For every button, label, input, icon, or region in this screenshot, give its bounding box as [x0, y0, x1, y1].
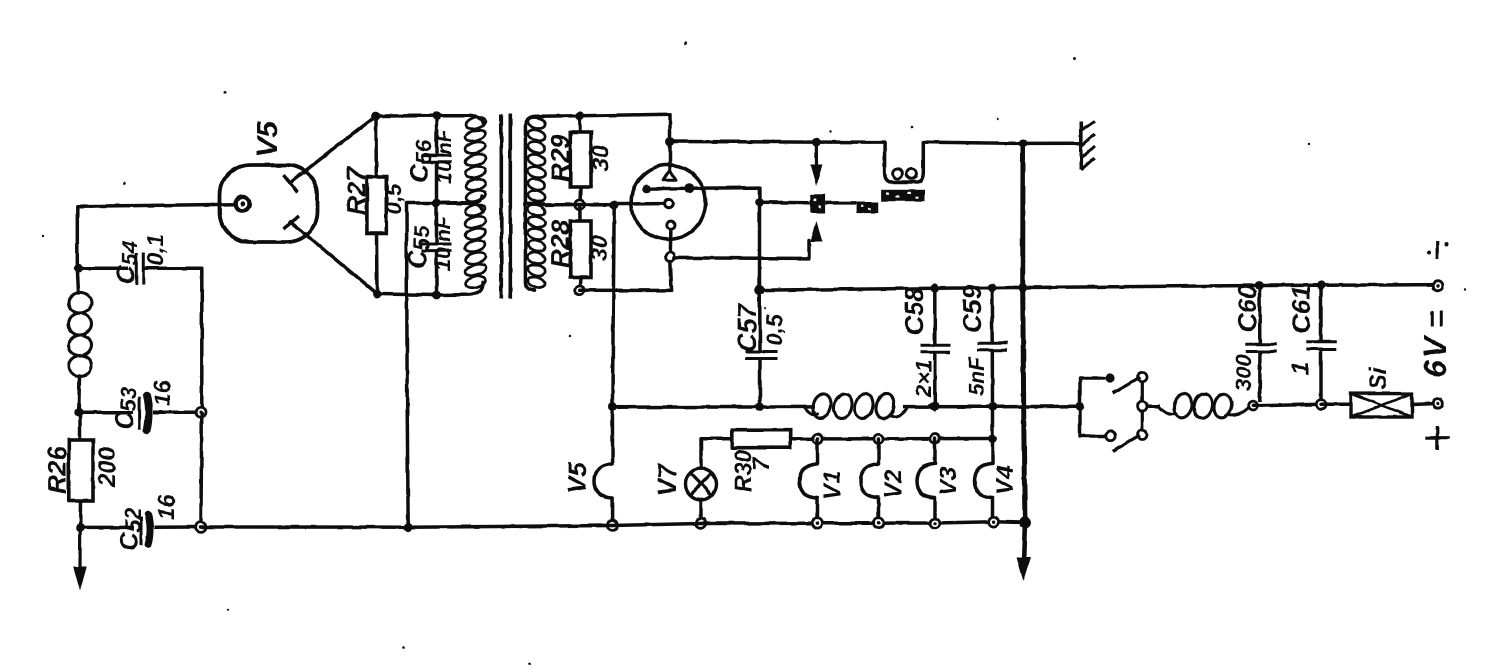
- resistor R28: [570, 205, 591, 290]
- transformer core: [501, 114, 510, 299]
- node junction C60 top: [1255, 281, 1264, 290]
- tube V3 heater: [917, 439, 935, 520]
- vibrator stack small block: [856, 202, 879, 213]
- wire heater top rail: [818, 437, 993, 441]
- svg-text:10 nF: 10 nF: [433, 128, 456, 184]
- capacitor C53 electrolytic plates: [140, 396, 149, 431]
- tube V5 anode electrode bottom: [283, 216, 303, 232]
- svg-text:V5: V5: [252, 121, 284, 157]
- wire reed continuation to stack: [825, 201, 856, 205]
- node junction socket top feed: [666, 137, 675, 146]
- fuse Si body: [1351, 394, 1412, 417]
- node junction top-left: [372, 112, 381, 121]
- wire anode top diagonal: [302, 116, 376, 173]
- transformer primary winding top half: [438, 115, 487, 203]
- node junction C61 bottom: [1316, 400, 1325, 409]
- node junction C54 tap: [74, 264, 83, 273]
- label R30 value 7: [748, 456, 775, 471]
- label minus sign: [1427, 242, 1449, 259]
- label C59 value 5nF: [964, 356, 989, 396]
- wire C54 left lead: [79, 266, 128, 270]
- wire top rail vibrator to bus: [923, 142, 1023, 143]
- label DC equals sign: [1432, 311, 1441, 327]
- transformer secondary winding top half: [525, 116, 546, 204]
- label V5 rectifier tube: [252, 121, 284, 157]
- svg-text:16: 16: [149, 380, 175, 406]
- node junction C59 top: [987, 283, 996, 292]
- wire heater feed vertical drop: [612, 205, 614, 407]
- HT bus thick vertical: [1023, 143, 1025, 522]
- wire secondary mid tap: [525, 202, 545, 206]
- label R29 value 30: [587, 145, 613, 171]
- wire socket bottom terminal to secondary rail: [580, 261, 672, 290]
- wire C53 right lead: [153, 410, 201, 414]
- node junction V3 top: [930, 434, 939, 443]
- node junction C59 bottom / V4 feed: [988, 402, 997, 411]
- tube V5 anode electrode top: [284, 173, 303, 192]
- node junction C58 top: [930, 284, 939, 293]
- svg-text:6V: 6V: [1417, 334, 1453, 378]
- label R28 value 30: [586, 235, 612, 261]
- wire socket pin5 down lead: [669, 229, 673, 252]
- node junction vibrator drive tap: [812, 138, 821, 147]
- svg-text:R29: R29: [545, 134, 575, 182]
- label C57 value 0,5: [761, 313, 787, 346]
- label V3: [935, 466, 962, 496]
- vibrator socket outline: [631, 165, 705, 239]
- node junction choke/C60: [1248, 401, 1257, 410]
- label C53 value 16: [149, 380, 175, 406]
- switch S1 blade upper: [1113, 378, 1141, 394]
- label R29: [545, 134, 575, 182]
- wire top junction to C56 lead: [376, 114, 437, 118]
- wire heater feed rail right: [993, 405, 1081, 409]
- label C57: [732, 303, 762, 352]
- switch S1 pole mid: [1138, 402, 1147, 411]
- wire top rail socket to vibrator: [670, 140, 816, 144]
- node junction C52 tap: [76, 523, 85, 532]
- node junction V4 ground: [989, 517, 999, 527]
- wire grid lead from V5 to left rail: [77, 204, 236, 268]
- svg-text:V1: V1: [819, 471, 846, 500]
- wire bottom rail to fuse: [1321, 402, 1351, 406]
- label C52 value 16: [153, 494, 179, 520]
- wire reed to contact: [760, 201, 810, 205]
- vibrator fixed contact block: [810, 194, 825, 213]
- node junction C55 bottom: [432, 291, 441, 300]
- node junction reed tap: [755, 198, 764, 207]
- svg-text:C58: C58: [899, 287, 929, 335]
- node junction bottom-left: [373, 290, 382, 299]
- svg-text:V7: V7: [652, 463, 682, 496]
- wire top rail to chassis ground: [1023, 141, 1081, 145]
- label C59: [957, 285, 987, 333]
- label plus sign: [1426, 426, 1450, 450]
- svg-text:C60: C60: [1232, 284, 1262, 332]
- socket pin 4 centre: [664, 199, 673, 208]
- inductor L2 heater choke: [804, 392, 908, 420]
- svg-text:R28: R28: [545, 220, 575, 268]
- node junction secondary bottom: [575, 285, 585, 295]
- vibrator drive coil: [885, 142, 924, 182]
- wire switch output: [1147, 404, 1160, 408]
- capacitor C58: [920, 288, 950, 402]
- svg-text:200: 200: [94, 446, 121, 488]
- label C60 value 300: [1231, 354, 1256, 391]
- tube V4 heater: [975, 439, 993, 519]
- switch S1 upper fixed contact: [1105, 373, 1114, 382]
- label V2: [880, 469, 907, 499]
- tube V5 envelope: [220, 165, 318, 242]
- label C55: [402, 225, 434, 269]
- wire secondary mid tap to vibrator socket: [545, 204, 664, 205]
- wire C54 right lead to right rail: [145, 268, 202, 412]
- vibrator lower contact arrow up: [810, 222, 822, 242]
- node junction V5 heater ground: [608, 521, 618, 531]
- switch S1 blade lower: [1113, 436, 1141, 452]
- label C58 value 2x1: [911, 360, 936, 398]
- svg-text:1: 1: [1287, 362, 1314, 375]
- vibrator moving contact arrow down: [811, 142, 823, 185]
- node junction top rail / HT bus: [1019, 139, 1028, 148]
- label R27 value 0,5: [381, 183, 406, 214]
- node junction ground-line left end: [196, 522, 206, 532]
- label Si: [1365, 366, 1392, 390]
- socket pin 2 contact: [642, 185, 651, 194]
- label C61: [1286, 285, 1316, 333]
- terminal battery minus: [1433, 281, 1443, 291]
- arrow to battery minus (chassis) below C52: [73, 528, 87, 592]
- node junction V3 ground: [930, 518, 940, 528]
- wire C52 left lead: [80, 526, 134, 530]
- node junction B-rail / C57: [755, 285, 765, 295]
- node junction secondary top: [575, 111, 584, 120]
- node junction V1 top: [813, 434, 822, 443]
- label V1: [819, 471, 846, 500]
- switch S1 lower fixed contact: [1106, 431, 1115, 440]
- terminal battery plus: [1433, 399, 1443, 409]
- node junction V2 top: [874, 434, 883, 443]
- label V7: [652, 463, 682, 496]
- tube V5 heater: [595, 407, 613, 520]
- transformer secondary winding bottom half: [525, 203, 546, 291]
- wire C52 right lead: [155, 525, 201, 529]
- socket pin 3 contact: [684, 183, 694, 193]
- svg-text:0,5: 0,5: [761, 313, 787, 346]
- capacitor C52 electrolytic plates: [141, 515, 150, 546]
- wire secondary top to socket: [536, 114, 670, 141]
- svg-text:10 nF: 10 nF: [432, 215, 455, 271]
- switch S1 pole post: [1141, 374, 1144, 437]
- svg-text:5nF: 5nF: [964, 356, 989, 396]
- tube V2 heater: [861, 439, 879, 520]
- wire B-line long rail: [760, 285, 1438, 291]
- node junction secondary mid: [575, 200, 585, 210]
- tube V5 grid pin terminal: [236, 197, 250, 211]
- wire fuse to plus terminal: [1412, 402, 1433, 406]
- label R26: [42, 446, 72, 494]
- svg-text:C59: C59: [957, 285, 987, 333]
- label R27: [341, 166, 371, 215]
- label V4: [992, 466, 1019, 495]
- svg-text:R26: R26: [42, 446, 72, 494]
- svg-text:V5: V5: [562, 462, 592, 494]
- resistor R29: [570, 116, 591, 205]
- svg-text:7: 7: [748, 456, 775, 471]
- node junction primary CT ground: [404, 523, 413, 532]
- svg-text:V2: V2: [880, 469, 907, 499]
- node junction C56 top: [432, 111, 441, 120]
- capacitor C57: [745, 290, 777, 407]
- inductor L3 output choke: [1158, 392, 1249, 420]
- node junction bus/B-line: [1018, 283, 1027, 292]
- vibrator reed arm from socket jumper: [689, 188, 759, 203]
- node junction C55/C56 mid: [432, 199, 441, 208]
- label 6V: [1417, 334, 1453, 378]
- label V5 heater: [562, 462, 592, 494]
- inductor L1 antenna coil: [67, 268, 93, 412]
- arrow HT bus to battery minus: [1017, 523, 1031, 582]
- label R28: [545, 220, 575, 268]
- svg-text:Si: Si: [1365, 366, 1392, 390]
- socket pin 1 triangle: [664, 171, 676, 181]
- label C56 value 10nF: [433, 128, 456, 184]
- switch S1 frame upper: [1080, 378, 1104, 406]
- wire vibrator reed lower contact arm: [674, 232, 816, 258]
- label R26 value 200: [94, 446, 121, 488]
- svg-text:30: 30: [587, 145, 613, 171]
- switch S1 pole top: [1138, 372, 1147, 381]
- socket pin 5 bottom: [667, 221, 675, 229]
- node junction V1 ground: [813, 518, 823, 528]
- node junction V2 ground: [874, 518, 884, 528]
- node junction bus/ground-line: [1019, 517, 1031, 529]
- node junction heater feed tap: [610, 200, 619, 209]
- label C54: [110, 241, 142, 284]
- svg-text:C61: C61: [1286, 285, 1316, 333]
- svg-text:C57: C57: [732, 303, 762, 352]
- wire socket top pin lead: [668, 142, 672, 172]
- node junction right-rail C53: [196, 407, 206, 417]
- svg-text:2×1: 2×1: [911, 360, 936, 398]
- wire heater feed rail mid: [903, 405, 993, 409]
- svg-text:300: 300: [1231, 354, 1256, 391]
- node junction C53 tap: [74, 408, 83, 417]
- svg-text:30: 30: [586, 235, 612, 261]
- label R30: [730, 450, 756, 492]
- svg-text:V4: V4: [992, 466, 1019, 495]
- label C52: [114, 507, 146, 551]
- node junction V7 ground: [696, 519, 706, 529]
- svg-text:16: 16: [153, 494, 179, 520]
- wire heater feed rail left: [612, 405, 815, 409]
- socket jumper bar pins 2-3: [647, 187, 690, 191]
- node terminal below socket: [666, 252, 675, 261]
- label C55 value 10nF: [432, 215, 455, 271]
- capacitor C56: [422, 116, 452, 203]
- wire mid tap to primary: [437, 201, 467, 205]
- node junction C58 bottom: [925, 401, 939, 413]
- label C60: [1232, 284, 1262, 332]
- label C54 value 0,1: [142, 234, 168, 266]
- svg-text:0,1: 0,1: [142, 234, 168, 266]
- tube V1 heater: [800, 439, 818, 520]
- capacitor C61: [1306, 285, 1336, 404]
- svg-text:0,5: 0,5: [381, 183, 406, 214]
- wire V4 feed drop: [991, 407, 995, 439]
- capacitor C55: [422, 203, 452, 295]
- svg-text:R27: R27: [341, 166, 371, 215]
- node junction C61 top: [1317, 281, 1326, 290]
- capacitor C59: [978, 288, 1008, 407]
- resistor R26: [69, 412, 93, 527]
- node junction switch input: [1076, 402, 1085, 411]
- vibrator magnet large block: [881, 189, 924, 201]
- wire top rail vibrator segment: [816, 140, 884, 144]
- resistor R30: [732, 430, 818, 448]
- label C58: [899, 287, 929, 335]
- label C53: [109, 387, 141, 430]
- node junction heater feed left: [608, 403, 617, 412]
- wire anode bottom diagonal: [303, 232, 377, 294]
- wire bottom rail C60-C61: [1253, 404, 1321, 406]
- resistor R27: [367, 116, 386, 294]
- ground chassis symbol: [1081, 121, 1095, 170]
- wire vibrator B-rail start: [758, 202, 762, 290]
- wire right rail down segment: [199, 412, 203, 527]
- transformer primary winding bottom half: [438, 202, 487, 295]
- wire chassis ground rail: [201, 522, 1025, 528]
- lamp V7 pilot: [686, 439, 732, 520]
- capacitor C60: [1246, 286, 1277, 403]
- node junction V4 top: [988, 434, 997, 443]
- wire bottom junction to primary: [377, 294, 437, 295]
- node junction C57 bottom: [756, 402, 765, 411]
- switch S1 pole bottom: [1138, 430, 1147, 439]
- switch S1 frame lower: [1080, 406, 1105, 436]
- wire primary centre-tap to chassis rail: [407, 203, 437, 527]
- label C56: [404, 139, 436, 183]
- capacitor C54 plates: [136, 253, 143, 285]
- svg-text:V3: V3: [935, 466, 962, 496]
- wire C53 left lead: [79, 410, 133, 414]
- label C61 value 1: [1287, 362, 1314, 375]
